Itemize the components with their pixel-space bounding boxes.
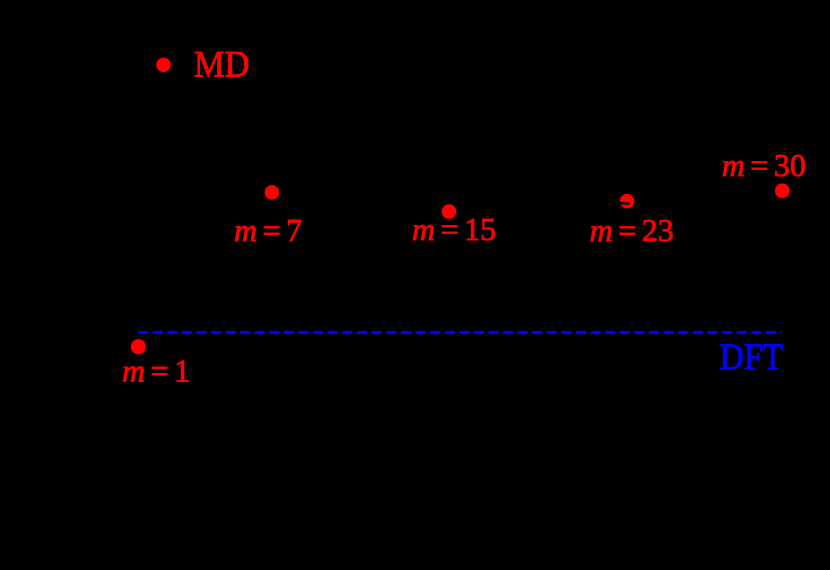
svg-text:m = 1: m = 1 — [122, 353, 190, 389]
point m=30 — [775, 183, 790, 198]
svg-text:m = 15: m = 15 — [412, 211, 496, 247]
svg-text:m = 23: m = 23 — [590, 212, 674, 248]
svg-text:m = 7: m = 7 — [234, 212, 302, 248]
svg-text:MD: MD — [194, 44, 250, 85]
DFT reference dashed line — [138, 331, 782, 334]
svg-text:DFT: DFT — [720, 336, 783, 377]
black segment crossing point m=23 — [618, 202, 629, 205]
point m=15 — [442, 204, 457, 219]
point m=23 — [620, 194, 635, 209]
point m=1 — [131, 339, 146, 354]
point m=7 — [265, 185, 280, 200]
svg-text:m = 30: m = 30 — [722, 147, 806, 183]
point MD — [156, 58, 171, 73]
